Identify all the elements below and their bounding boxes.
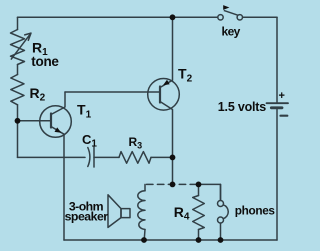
svg-text:key: key <box>222 25 241 39</box>
wire T1 base lead <box>18 120 52 122</box>
resistor R3 <box>119 152 151 164</box>
key switch lever arrow <box>223 5 229 10</box>
wire R3 to junction <box>151 156 173 158</box>
svg-text:1.5 volts: 1.5 volts <box>218 100 266 114</box>
phones top lead <box>220 184 222 200</box>
T2 emitter lead (top) <box>160 17 173 87</box>
key switch lever <box>224 10 238 15</box>
resistor R4 <box>193 196 205 230</box>
speaker cone <box>108 195 121 228</box>
dashed wire speaker link <box>147 183 199 185</box>
T2 collector lead (bottom) <box>160 102 173 158</box>
junction dot R4 bottom <box>196 237 202 243</box>
key switch right contact <box>237 15 242 20</box>
T1 emitter lead <box>51 127 64 135</box>
wire top rail right segment <box>243 16 277 18</box>
phones top terminal circle <box>218 201 224 207</box>
wire left rail top <box>17 17 19 29</box>
svg-text:+: + <box>279 90 285 102</box>
junction dot coil bottom <box>141 237 147 243</box>
wire T2 collector to dashed junction <box>172 157 174 184</box>
wire T1 emitter down <box>63 134 65 240</box>
resistor R4 top lead <box>198 184 200 195</box>
junction dot phones bottom <box>218 237 224 243</box>
R1 wiper arrow <box>11 33 31 59</box>
wire right rail top (to battery) <box>276 17 278 102</box>
resistor R1 <box>11 30 25 65</box>
junction dot top rail <box>170 14 176 20</box>
wire R2 down to C1 corner <box>17 105 19 158</box>
wire bottom rail <box>64 239 277 241</box>
transistor T1 circle <box>40 106 72 138</box>
wire T1 collector to T2 base <box>65 91 160 93</box>
resistor R4 bottom lead <box>198 230 200 241</box>
wire R1 to R2 <box>17 65 19 75</box>
battery minus sign <box>281 115 288 117</box>
transistor T2 circle <box>148 79 180 111</box>
svg-text:speaker: speaker <box>65 210 109 224</box>
battery short plate <box>271 106 282 109</box>
wire right rail bottom <box>276 110 278 241</box>
speaker coil <box>138 191 145 230</box>
T2 emitter arrow <box>163 80 170 85</box>
T1 base bar <box>50 114 52 128</box>
T2 base bar <box>159 87 161 103</box>
wire C1 to R3 <box>94 156 119 158</box>
phones jack arc <box>223 205 228 219</box>
wire top rail left segment <box>18 16 219 18</box>
T1 collector lead <box>51 92 65 115</box>
junction dot left rail base tap <box>15 118 21 124</box>
phones bottom lead <box>220 223 222 240</box>
battery long plate <box>267 102 289 104</box>
T1 emitter arrow <box>55 127 62 132</box>
svg-text:phones: phones <box>235 203 276 217</box>
wire junction to phones corner <box>199 184 221 200</box>
junction dot dashed line left <box>170 182 176 188</box>
speaker coil bottom lead <box>143 230 146 241</box>
junction dot R4 top <box>196 182 202 188</box>
key switch left contact <box>218 15 223 20</box>
wire C1 left lead <box>18 156 86 158</box>
resistor R2 <box>11 75 24 105</box>
junction dot R3/T2 collector <box>170 155 176 161</box>
svg-text:tone: tone <box>31 54 59 69</box>
phones bottom terminal circle <box>218 217 224 223</box>
speaker driver box <box>121 209 130 218</box>
capacitor C1 straight plate <box>93 147 95 168</box>
capacitor C1 curved plate <box>88 148 90 167</box>
speaker coil top lead <box>144 184 146 190</box>
